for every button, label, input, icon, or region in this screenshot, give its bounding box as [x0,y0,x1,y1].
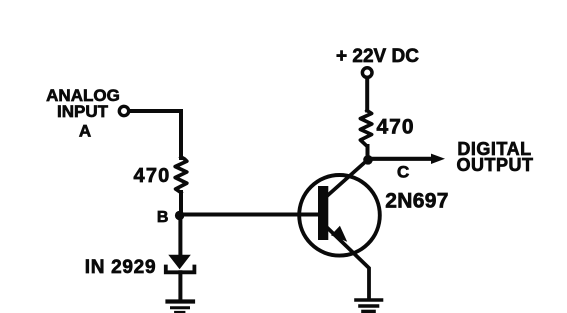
label ANALOG INPUT A [46,86,120,141]
+22VDC supply terminal [362,68,372,78]
svg-text:+ 22V DC: + 22V DC [336,46,419,67]
input terminal A [119,106,128,115]
svg-text:A: A [79,122,91,141]
output wire with arrow [371,154,445,164]
svg-text:OUTPUT: OUTPUT [457,155,534,175]
wire diode to ground [178,272,182,299]
label DIGITAL OUTPUT [457,139,534,175]
svg-text:2N697: 2N697 [385,190,448,213]
resistor R1 470 [175,157,187,193]
diode IN2929 [166,255,195,272]
svg-text:470: 470 [134,165,171,187]
ground (right) [356,300,382,312]
wire node B to diode [178,216,182,257]
resistor R2 470 [360,111,371,146]
svg-text:IN 2929: IN 2929 [85,257,156,278]
wire resistor to +22VDC terminal [365,78,369,111]
collector lead [327,160,368,197]
node C junction dot [363,155,373,165]
emitter lead [327,228,369,299]
wire resistor to node B [179,192,183,216]
svg-text:C: C [397,163,409,182]
transistor Q1 2N697 [299,160,380,299]
svg-text:B: B [157,209,169,226]
wire input to corner [129,111,181,158]
ground (left) [168,302,194,313]
wire node B to base [183,213,319,217]
svg-text:470: 470 [376,116,414,139]
svg-text:INPUT: INPUT [57,102,109,121]
wire node C to resistor [366,146,370,160]
node B junction dot [175,211,184,220]
